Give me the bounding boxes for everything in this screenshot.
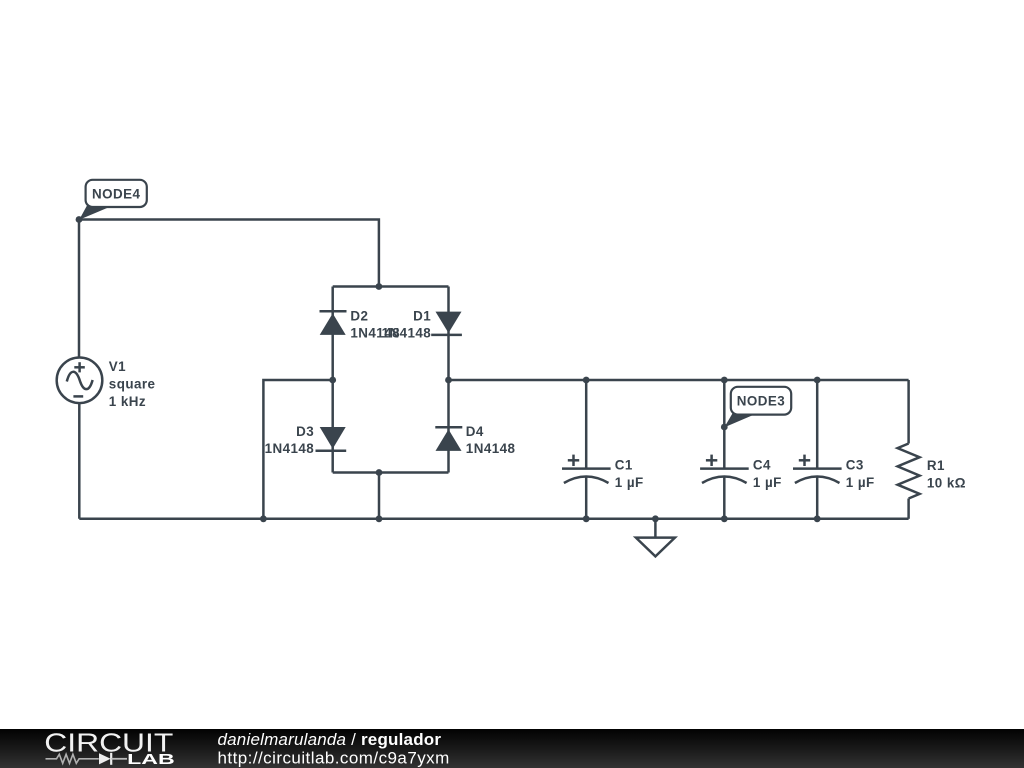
junction dot NODE4	[76, 216, 83, 223]
junction dot bottom ground	[652, 515, 659, 522]
label R1 value	[927, 458, 966, 491]
wire bridge left branch to bottom rail	[263, 380, 332, 519]
wire C3 top lead	[816, 380, 819, 469]
junction dot bottom left branch	[260, 515, 267, 522]
junction dot bottom bridge stem	[376, 515, 383, 522]
wire C4 top lead	[723, 380, 726, 469]
label V1 value	[109, 359, 156, 409]
svg-text:D2: D2	[350, 308, 368, 323]
junction dot bridge top	[376, 283, 383, 290]
wire R1 top lead	[907, 380, 910, 444]
ground	[636, 519, 675, 557]
svg-text:square: square	[109, 377, 156, 392]
svg-text:1 kHz: 1 kHz	[109, 394, 146, 409]
junction dot bottom C1	[583, 515, 590, 522]
diode D4	[435, 427, 462, 451]
svg-text:D4: D4	[466, 424, 484, 439]
svg-text:danielmarulanda / regulador: danielmarulanda / regulador	[218, 730, 442, 749]
wire C1 bottom lead	[585, 477, 588, 519]
svg-text:http://circuitlab.com/c9a7yxm: http://circuitlab.com/c9a7yxm	[218, 749, 450, 768]
svg-text:V1: V1	[109, 359, 126, 374]
label C4 value	[753, 457, 782, 490]
label D3 value	[265, 424, 315, 456]
svg-text:R1: R1	[927, 458, 945, 473]
capacitor C3	[793, 455, 842, 483]
junction dot bridge right	[445, 377, 452, 384]
junction dot bottom C3	[814, 515, 821, 522]
junction dot bridge left	[329, 377, 336, 384]
wire bridge bottom stem	[378, 473, 381, 519]
svg-text:C3: C3	[846, 457, 864, 472]
footer bar	[0, 729, 1024, 768]
capacitor C1	[562, 455, 611, 483]
label C1 value	[615, 457, 644, 490]
wire V1 bottom lead	[78, 403, 81, 519]
capacitor C4	[700, 455, 749, 483]
junction dot bridge bottom	[376, 469, 383, 476]
label D1 value	[382, 308, 432, 340]
diode D2	[320, 311, 347, 335]
wire bridge left vertical	[331, 287, 334, 473]
wire C4 bottom lead	[723, 477, 726, 519]
voltage source V1	[57, 358, 103, 404]
svg-text:1N4148: 1N4148	[382, 326, 432, 341]
label D4 value	[466, 424, 516, 456]
svg-text:10 kΩ: 10 kΩ	[927, 476, 966, 491]
wire C3 bottom lead	[816, 477, 819, 519]
diode D1	[431, 312, 462, 335]
label D2 value	[350, 308, 400, 340]
svg-text:NODE4: NODE4	[92, 186, 140, 201]
resistor R1	[898, 444, 920, 499]
wire bridge bottom edge	[333, 471, 449, 474]
svg-text:1N4148: 1N4148	[466, 441, 516, 456]
junction dot bottom C4	[721, 515, 728, 522]
junction dot rail C3 top	[814, 377, 821, 384]
svg-text:1 µF: 1 µF	[615, 475, 644, 490]
svg-text:D3: D3	[296, 424, 314, 439]
wire NODE4 horizontal top	[79, 220, 379, 287]
svg-text:LAB: LAB	[127, 751, 175, 768]
node NODE3 flag	[724, 387, 791, 428]
svg-text:NODE3: NODE3	[737, 394, 785, 409]
label C3 value	[846, 457, 875, 490]
wire V1 top lead	[78, 220, 81, 359]
logo resistor squiggle	[46, 754, 99, 763]
node NODE4 flag	[79, 180, 147, 220]
logo diode symbol	[99, 753, 111, 764]
wire bridge top edge	[333, 285, 449, 288]
junction dot NODE3 tap	[721, 424, 728, 431]
svg-text:C4: C4	[753, 457, 771, 472]
wire C1 top lead	[585, 380, 588, 469]
wire bottom ground rail	[79, 518, 908, 521]
junction dot rail C1 top	[583, 377, 590, 384]
diode D3	[316, 427, 347, 451]
svg-text:1 µF: 1 µF	[753, 475, 782, 490]
svg-text:1 µF: 1 µF	[846, 475, 875, 490]
svg-text:1N4148: 1N4148	[265, 441, 315, 456]
wire output rail	[449, 379, 909, 382]
svg-text:C1: C1	[615, 457, 633, 472]
wire R1 bottom lead	[907, 499, 910, 519]
junction dot rail C4 top	[721, 377, 728, 384]
svg-text:D1: D1	[413, 308, 431, 323]
wire bridge right vertical	[447, 287, 450, 473]
